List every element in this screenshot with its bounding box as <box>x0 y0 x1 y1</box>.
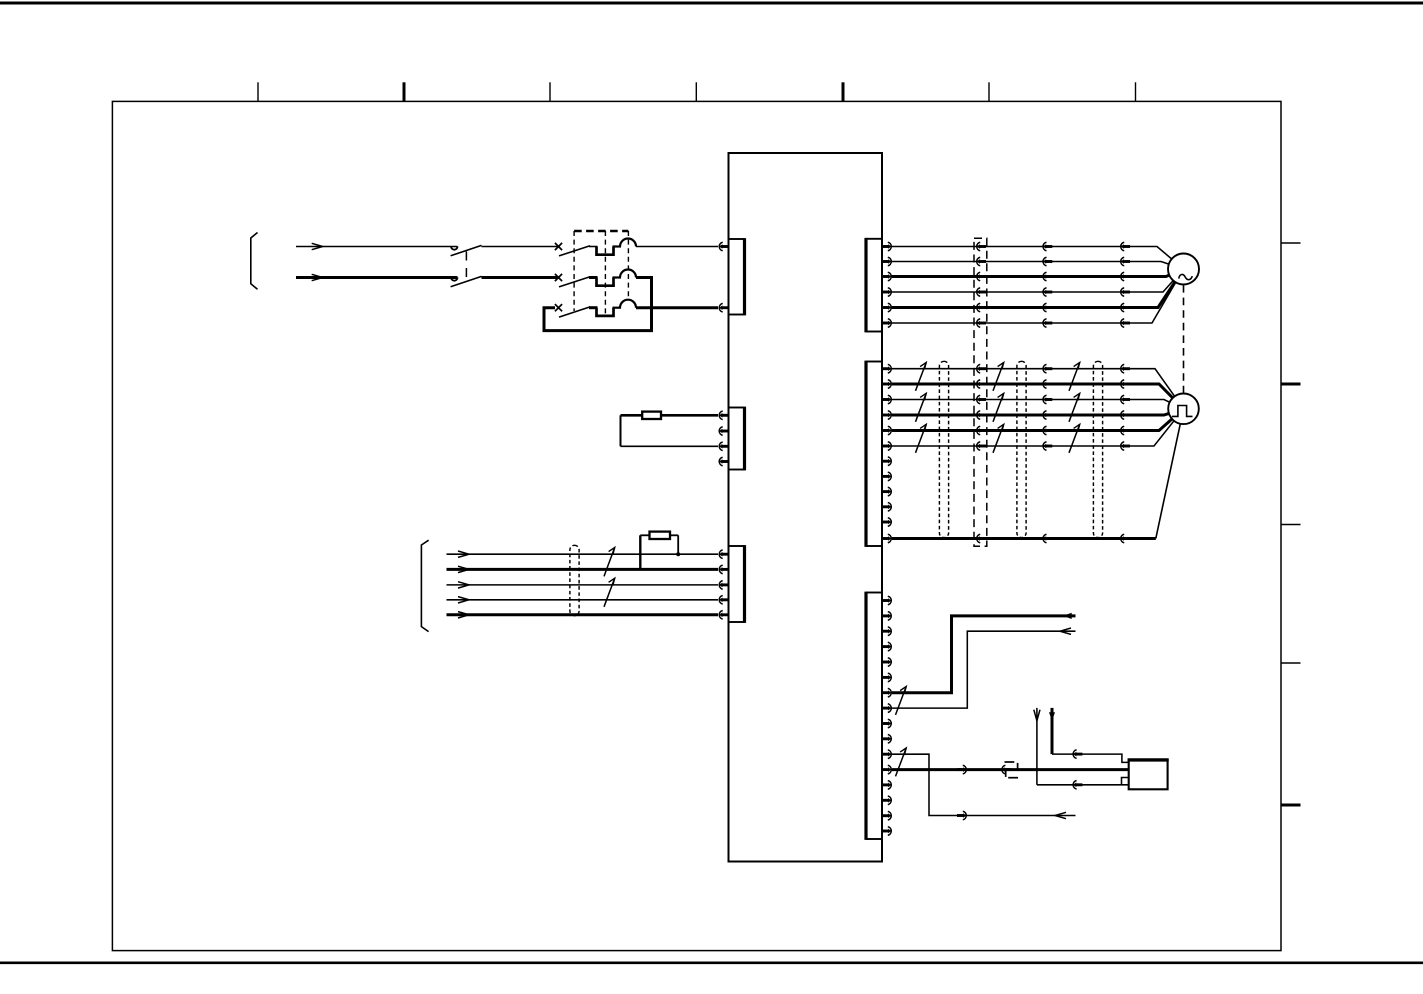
inline socket 6 col B <box>1043 319 1052 328</box>
motor M1 dashed coupling to M2 <box>1183 285 1185 393</box>
inline socket 6 col C <box>1121 319 1130 328</box>
twisted bundle capsule M2 col 2 <box>1017 361 1026 537</box>
inline socket M2-4 col C <box>1121 411 1130 420</box>
inline socket 3 col B <box>1043 272 1052 281</box>
switch S1b contact hook <box>451 278 457 281</box>
arrow input line 1 <box>312 243 323 249</box>
connector CN1 pin 1 <box>719 242 728 251</box>
connector CN6 pin 2 <box>882 612 891 621</box>
inline socket shield col B <box>1043 534 1052 543</box>
control unit U1 (main box) <box>729 153 883 862</box>
inline plug pin11 line <box>957 811 966 820</box>
connector CN6 pin 9 <box>882 719 891 728</box>
breaker CB3 blade row 3 <box>559 307 590 317</box>
wire L2 input line 2 <box>296 276 458 279</box>
wire M2 lead 2 <box>892 384 1184 409</box>
arrow harness line 4 <box>458 597 469 603</box>
inline socket M2-2 col B <box>1043 380 1052 389</box>
breaker CB3 coil arc row 3 <box>620 300 636 308</box>
connector CN5 pin 12 (shield) <box>882 534 891 543</box>
wire line C to aux box <box>1037 784 1129 786</box>
connector CN4 pin 4 <box>882 288 891 297</box>
connector CN6 pin 16 <box>882 827 891 836</box>
arrow harness line 3 <box>458 582 469 588</box>
wire M2 lead 4 <box>892 409 1184 415</box>
aux box (actuator) <box>1129 760 1168 789</box>
wire shunt top left <box>640 534 649 536</box>
wire CN6 pin11 branch <box>892 754 1076 815</box>
breaker CB2 blade row 2 <box>559 277 590 287</box>
resistor R2 body <box>650 532 671 539</box>
connector CN2 pin 2 <box>719 427 728 436</box>
twist mark M2 pair 2 col 1 <box>916 393 927 422</box>
switch S1a blade <box>451 245 482 255</box>
connector CN6 pin 10 <box>882 735 891 744</box>
wire L1 input line 1 <box>296 246 458 248</box>
breaker dashed enclosure top <box>574 230 628 233</box>
motor M1 body <box>1168 254 1199 285</box>
wire M1 lead 4 <box>892 269 1184 292</box>
connector CN6 pin 15 <box>882 811 891 820</box>
top margin tick 3 <box>549 82 551 101</box>
wire M2 lead 3 <box>892 400 1184 409</box>
breaker CB1 thermal notch row 1 <box>597 247 614 255</box>
inline socket line C <box>1073 781 1082 790</box>
twist mark M2 pair 2 col 3 <box>1069 393 1080 422</box>
inline socket M2-6 col C <box>1121 442 1130 451</box>
wire M2 shield diagonal <box>1156 409 1184 539</box>
connector CN6 pin 5 <box>882 658 891 667</box>
inline socket 5 col A <box>977 303 986 312</box>
wire blade-exit row 2 <box>589 276 598 279</box>
wire harness line 5 <box>447 613 719 616</box>
connector CN6 pin 6 <box>882 673 891 682</box>
breaker dashed tie 3 <box>627 231 629 299</box>
connector CN5 spare pin 8 <box>882 472 891 481</box>
twist mark M2 pair 1 col 2 <box>993 363 1004 391</box>
right margin tick 5 <box>1281 804 1301 807</box>
twist mark M2 pair 2 col 2 <box>993 393 1004 422</box>
inline socket M2-1 col A <box>977 364 986 373</box>
connector CN6 pin 12 <box>882 765 891 774</box>
wire loop vertical <box>620 415 622 446</box>
connector CN6 pin 1 <box>882 596 891 605</box>
twist mark M2 pair 1 col 3 <box>1069 363 1080 391</box>
motor M2 pulse symbol <box>1172 406 1193 417</box>
wire row 3 to connector CN1 pin 2 <box>636 306 718 309</box>
inline socket 5 col C <box>1121 303 1130 312</box>
right margin tick 1 <box>1281 242 1301 244</box>
arrow harness line 2 <box>458 566 469 572</box>
twisted bundle capsule M2 col 1 <box>939 361 948 537</box>
contact cross X row 1 <box>555 243 562 250</box>
inline socket 4 col A <box>977 288 986 297</box>
top margin tick 5 <box>842 82 845 101</box>
wire harness line 4 <box>447 599 719 601</box>
connector CN4 pin 6 <box>882 319 891 328</box>
bracket (external supply input) <box>251 233 258 290</box>
connector CN5 spare pin 11 <box>882 518 891 527</box>
connector CN2 pin 1 <box>719 411 728 420</box>
inline socket M2-3 col C <box>1121 395 1130 404</box>
wire M1 lead 3 <box>892 269 1184 277</box>
inline socket M2-5 col A <box>977 426 986 435</box>
wire notch-arc row 1 <box>613 245 622 247</box>
connector CN5 spare pin 7 <box>882 457 891 466</box>
switch gang dashed link <box>465 252 467 278</box>
connector CN2 pin 4 <box>719 457 728 466</box>
motor M1 AC symbol <box>1179 274 1193 279</box>
connector CN5 shell <box>866 361 882 363</box>
connector CN3 pin 1 <box>719 550 728 559</box>
connector CN5 pin 2 <box>882 380 891 389</box>
connector CN2 shell <box>729 407 745 409</box>
arrow pin7 feed end <box>1063 613 1072 619</box>
connector CN3 pin 5 <box>719 611 728 620</box>
connector CN1 shell <box>729 238 745 240</box>
arrow pin8 feed end <box>1060 628 1071 634</box>
inline socket M2-5 col C <box>1121 426 1130 435</box>
inline socket M2-6 col B <box>1043 442 1052 451</box>
wire blade-exit row 3 <box>589 306 598 309</box>
page bottom rule <box>0 961 1423 964</box>
breaker CB2 coil arc row 2 <box>620 270 636 278</box>
wire CN6 pin7 feed <box>892 616 1076 693</box>
inline socket 1 col A <box>977 242 986 251</box>
connector CN3 pin 2 <box>719 565 728 574</box>
connector CN6 pin 3 <box>882 627 891 636</box>
twist mark pins 7-8 <box>896 687 907 715</box>
connector CN5 pin 3 <box>882 395 891 404</box>
inline socket M2-6 col A <box>977 442 986 451</box>
wire M1 lead 5 <box>892 269 1184 308</box>
aux box top edge emphasis <box>1128 758 1169 761</box>
breaker CB1 blade row 1 <box>559 246 590 256</box>
inline socket 4 col B <box>1043 288 1052 297</box>
inline socket 2 col B <box>1043 257 1052 266</box>
wire shunt tap vertical <box>639 535 641 569</box>
inline socket M2-3 col B <box>1043 395 1052 404</box>
inline socket 3 col A <box>977 272 986 281</box>
connector CN5 pin 1 <box>882 364 891 373</box>
twist mark M2 pair 3 col 2 <box>993 424 1004 453</box>
breaker CB1 coil arc row 1 <box>620 239 636 247</box>
inline socket 2 col A <box>977 257 986 266</box>
inline plug pin12 line <box>957 765 966 774</box>
wire switch S1b to breaker row 2 <box>482 276 559 279</box>
breaker CB3 thermal notch row 3 <box>597 308 614 316</box>
connector CN3 pin 3 <box>719 581 728 590</box>
wire row 1 to connector CN1 pin 1 <box>636 246 718 248</box>
right margin tick 3 <box>1281 524 1301 526</box>
wire harness line 3 <box>447 584 719 586</box>
inline socket M2-5 col B <box>1043 426 1052 435</box>
wire CN6 pin8 feed <box>892 631 1076 708</box>
inline socket M2-1 col B <box>1043 364 1052 373</box>
supply drop line (thin) with arrow <box>1036 708 1038 785</box>
inline socket 1 col B <box>1043 242 1052 251</box>
top margin tick 2 <box>403 82 406 101</box>
connector CN4 pin 5 <box>882 303 891 312</box>
connector CN4 pin 1 <box>882 242 891 251</box>
arrow harness line 1 <box>458 551 469 557</box>
inline socket 4 col C <box>1121 288 1130 297</box>
inline socket shield col C <box>1121 534 1130 543</box>
inline socket pin12 line (dashed connector) <box>1002 765 1011 774</box>
connector CN6 pin 4 <box>882 642 891 651</box>
inline socket 6 col A <box>977 319 986 328</box>
connector CN5 pin 6 <box>882 442 891 451</box>
right margin tick 4 <box>1281 662 1301 664</box>
breaker dashed tie 2 <box>604 231 606 316</box>
twist mark M2 pair 1 col 1 <box>916 363 927 391</box>
supply drop line (thick) with arrow <box>1051 708 1054 754</box>
wire notch-arc row 2 <box>613 276 622 278</box>
twist mark pair 3-4 <box>604 578 615 607</box>
wire notch-arc row 3 <box>613 307 622 309</box>
connector CN4 shell <box>866 238 882 240</box>
connector CN6 pin 7 <box>882 688 891 697</box>
arrow harness line 5 <box>458 612 469 618</box>
connector CN3 pin 4 <box>719 596 728 605</box>
wire M1 lead 6 <box>892 269 1184 323</box>
junction dot <box>676 552 680 556</box>
connector CN6 pin 11 <box>882 750 891 759</box>
wire M1 lead 1 <box>892 247 1184 270</box>
wire CN2 pin1 lead <box>661 414 718 417</box>
inline socket 3 col C <box>1121 272 1130 281</box>
wire resistor to bend <box>621 414 643 417</box>
contact cross X row 3 <box>555 304 562 311</box>
inline socket M2-2 col A <box>977 380 986 389</box>
bracket (sensor harness) <box>421 540 428 631</box>
wire loop return to CN2 pin3 <box>621 445 719 447</box>
connector CN6 shell <box>866 592 882 594</box>
inline socket 1 col C <box>1121 242 1130 251</box>
motor M2 body <box>1168 394 1199 425</box>
wire harness line 1 <box>447 553 719 555</box>
wire blade-exit row 1 <box>589 246 598 248</box>
switch S1b blade <box>451 276 482 286</box>
twisted bundle capsule M2 col 3 <box>1093 361 1102 537</box>
wire switch S1a to breaker row 1 <box>482 246 559 248</box>
inline socket M2-3 col A <box>977 395 986 404</box>
wire harness line 2 <box>447 568 719 571</box>
connector CN5 spare pin 10 <box>882 503 891 512</box>
inline socket 5 col B <box>1043 303 1052 312</box>
connector CN6 pin 8 <box>882 704 891 713</box>
connector CN5 pin 4 <box>882 411 891 420</box>
inline socket M2-2 col C <box>1121 380 1130 389</box>
connector CN3 shell <box>729 545 745 547</box>
top margin tick 7 <box>1135 82 1137 101</box>
inline socket M2-4 col B <box>1043 411 1052 420</box>
aux box notch <box>1122 778 1129 785</box>
connector CN6 pin 13 <box>882 781 891 790</box>
twist mark pair 1-2 <box>604 548 615 577</box>
top margin tick 4 <box>695 82 697 101</box>
inline socket M2-4 col A <box>977 411 986 420</box>
top margin tick 1 <box>257 82 259 101</box>
wire row 2 wrap-around to row 3 <box>544 278 652 331</box>
connector CN2 pin 3 <box>719 442 728 451</box>
arrow input line 2 <box>312 274 323 280</box>
wire M2 lead 5 <box>892 409 1184 431</box>
connector CN4 pin 3 <box>882 272 891 281</box>
wire M2 lead 1 <box>892 369 1184 409</box>
wire line A to aux box <box>1052 754 1129 762</box>
connector CN1 pin 2 <box>719 303 728 312</box>
right margin tick 2 <box>1281 383 1301 386</box>
twist mark M2 pair 3 col 1 <box>916 424 927 453</box>
wire M2 lead 6 <box>892 409 1184 446</box>
drawing border frame <box>112 101 1281 950</box>
wire shunt drop <box>677 535 679 554</box>
intermediate connector dashed boundary <box>974 238 987 546</box>
twisted bundle capsule <box>570 545 579 615</box>
connector CN6 pin 14 <box>882 796 891 805</box>
breaker CB2 thermal notch row 2 <box>597 278 614 286</box>
connector CN4 pin 2 <box>882 257 891 266</box>
connector CN5 pin 5 <box>882 426 891 435</box>
top margin tick 6 <box>988 82 990 101</box>
inline socket 2 col C <box>1121 257 1130 266</box>
wire M2 shield lead <box>892 537 1156 540</box>
intermediate connector dashes on pin12 line <box>1005 762 1019 778</box>
arrow pin11 line end <box>1055 812 1066 818</box>
twist mark pins 11-12 <box>896 748 907 776</box>
inline socket line A <box>1073 750 1082 759</box>
inline socket shield col A <box>977 534 986 543</box>
twist mark M2 pair 3 col 3 <box>1069 424 1080 453</box>
wire shunt top right <box>670 534 678 536</box>
inline socket M2-1 col C <box>1121 364 1130 373</box>
wire CN6 pin12 to aux box <box>892 768 1129 771</box>
resistor R1 body <box>642 412 661 419</box>
contact cross X row 2 <box>555 274 562 281</box>
page top rule <box>0 2 1423 5</box>
wire M1 lead 2 <box>892 262 1184 270</box>
switch S1a contact hook <box>451 247 457 250</box>
breaker dashed tie 1 <box>573 231 575 311</box>
connector CN5 spare pin 9 <box>882 487 891 496</box>
